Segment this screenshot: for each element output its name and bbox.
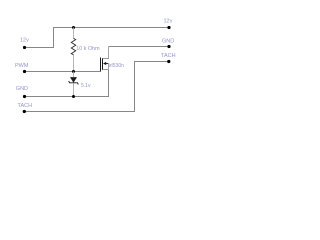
mosfet Q1 drain stub [103, 47, 109, 59]
mosfet Q1 body stub [106, 63, 109, 65]
mosfet Q1 channel bar [102, 58, 104, 70]
wire: mosfet drain to right GND terminal [109, 46, 170, 48]
resistor R1 leads [73, 28, 75, 39]
wire: GND rail left terminal to mosfet source [25, 70, 109, 97]
svg-text:TACH: TACH [161, 53, 176, 59]
terminal GND (left) [23, 95, 26, 98]
zener diode D1 triangle [70, 77, 76, 82]
zener diode D1 bottom lead [73, 83, 75, 97]
svg-text:12v: 12v [20, 38, 29, 44]
svg-text:5.1v: 5.1v [81, 83, 91, 89]
resistor R1 zigzag [71, 38, 75, 55]
mosfet Q1 source stub [103, 64, 109, 70]
svg-text:GND: GND [162, 39, 174, 45]
zener diode D1 top lead [73, 72, 75, 78]
wire: left TACH to right TACH [24, 62, 169, 112]
zener diode D1 cathode bar [69, 81, 79, 85]
junction: GND rail / zener cathode [72, 95, 75, 98]
wire: PWM terminal to mosfet gate [25, 71, 101, 73]
wire: left 12v terminal to top rail [25, 28, 74, 48]
junction: PWM node / resistor / zener [72, 70, 75, 73]
svg-text:TACH: TACH [18, 103, 33, 109]
junction: top rail / resistor [72, 26, 75, 29]
svg-text:12v: 12v [164, 19, 173, 25]
svg-text:irl530n: irl530n [109, 63, 124, 69]
mosfet Q1 body arrow [103, 62, 106, 65]
terminal 12v (left) [23, 46, 26, 49]
svg-text:10 k Ohm: 10 k Ohm [76, 46, 100, 52]
terminal 12v (right) [167, 26, 170, 29]
terminal GND (right) [167, 45, 170, 48]
svg-text:PWM: PWM [15, 63, 29, 69]
terminal TACH (left) [23, 110, 26, 113]
wire: top 12v rail to right 12v terminal [74, 27, 170, 29]
svg-text:GND: GND [16, 86, 28, 92]
terminal PWM (left) [23, 70, 26, 73]
terminal TACH (right) [167, 60, 170, 63]
mosfet Q1 gate bar [100, 58, 102, 72]
